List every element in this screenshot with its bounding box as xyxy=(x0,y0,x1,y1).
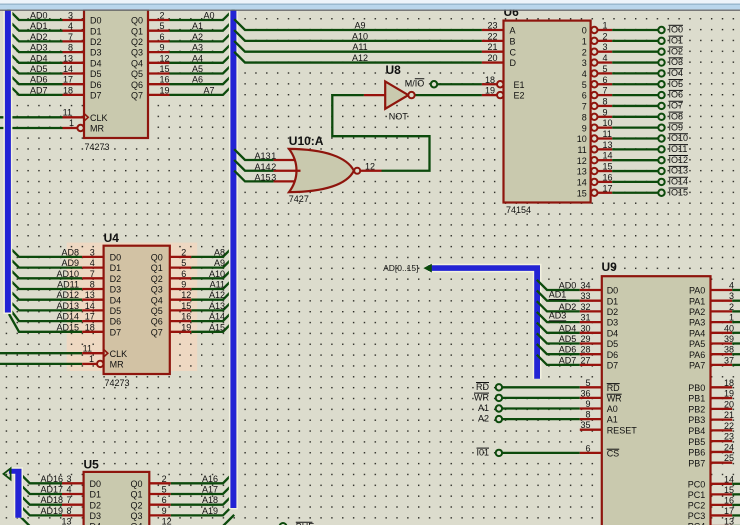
wire IO6 xyxy=(612,94,658,96)
svg-text:12: 12 xyxy=(365,161,375,171)
terminal IO5 xyxy=(658,81,664,87)
pin U9.34 (D0) stub xyxy=(580,289,602,291)
wire AD10 to U4.D2 xyxy=(8,267,83,278)
wire AD1 from AD bus to U9.D1 xyxy=(537,291,580,301)
pin U5.4 (D1) stub xyxy=(62,493,84,495)
svg-text:13: 13 xyxy=(603,140,613,150)
svg-text:AD3: AD3 xyxy=(549,311,567,321)
svg-text:1: 1 xyxy=(603,21,608,31)
pin U3.8 (D3) stub xyxy=(63,51,85,53)
svg-text:4: 4 xyxy=(90,258,95,268)
wire A19 from U5.Q3 to address bus xyxy=(171,504,234,515)
svg-text:14: 14 xyxy=(603,151,613,161)
terminal IO1 xyxy=(658,38,664,44)
wire AD0 from AD bus to U9.D0 xyxy=(537,280,580,290)
wire A13 from U4.Q5 to address bus xyxy=(191,299,234,310)
clock wedge U4.CLK xyxy=(104,349,108,357)
pin U6.13 (output 11) stub xyxy=(598,148,613,150)
pin U4.2 (Q0) stub xyxy=(170,256,192,258)
bus halo left xyxy=(3,10,12,314)
svg-text:WR: WR xyxy=(474,392,489,402)
svg-text:1: 1 xyxy=(69,118,74,128)
pin U6.15 (output 13) stub xyxy=(598,170,613,172)
wire PA7 xyxy=(732,364,740,366)
wire IO7 xyxy=(612,105,658,107)
svg-text:PA0: PA0 xyxy=(689,286,705,296)
svg-text:D4: D4 xyxy=(90,58,102,68)
svg-text:3: 3 xyxy=(582,58,587,68)
inversion bubble U6.E1 xyxy=(497,81,503,87)
svg-text:AD8: AD8 xyxy=(61,247,79,257)
pin U3.15 (Q5) stub xyxy=(148,72,170,74)
pin U9.9 (A0) stub xyxy=(580,407,602,409)
chip U5 74273 body (clipped at bottom) xyxy=(84,472,150,530)
pin U5.8 (D3) stub xyxy=(62,514,84,516)
svg-text:AD7: AD7 xyxy=(30,85,48,95)
wire PA3 xyxy=(732,321,740,323)
terminal IO0 xyxy=(658,27,664,33)
chip U6 74154 body xyxy=(504,21,591,203)
svg-text:A5: A5 xyxy=(192,64,203,74)
pin U6.19 (E2) stub xyxy=(482,94,497,96)
svg-text:A7: A7 xyxy=(203,85,214,95)
wire PC4 xyxy=(732,525,740,527)
svg-text:A19: A19 xyxy=(202,506,218,516)
pin U9.28 (D6) stub xyxy=(580,353,602,355)
terminal IO9 xyxy=(658,124,664,130)
pin U9.2 (PA2) stub xyxy=(711,310,733,312)
svg-text:5: 5 xyxy=(585,378,590,388)
wire AD3 to U3.D3 xyxy=(8,41,63,52)
svg-text:9: 9 xyxy=(603,107,608,117)
pin U3.16 (Q6) stub xyxy=(148,83,170,85)
svg-text:4: 4 xyxy=(729,281,734,291)
svg-text:4: 4 xyxy=(66,485,71,495)
svg-text:AD7: AD7 xyxy=(559,355,577,365)
chip U3 74273 body xyxy=(84,9,148,138)
svg-text:A11: A11 xyxy=(352,42,367,52)
svg-text:AD4: AD4 xyxy=(559,323,577,333)
chip U9 8255 body (clipped at bottom) xyxy=(602,276,711,530)
svg-text:13: 13 xyxy=(724,517,734,526)
pin U5.3 (D0) stub xyxy=(62,482,84,484)
svg-text:15: 15 xyxy=(160,64,170,74)
pin U4.1 (MR) stub xyxy=(82,363,97,365)
wire IO9 xyxy=(612,127,658,129)
svg-text:D3: D3 xyxy=(110,285,122,295)
pin U4.3 (D0) stub xyxy=(82,256,103,258)
pin U6.17 (output 15) stub xyxy=(598,192,613,194)
pin U9.22 (PB4) stub xyxy=(711,429,733,431)
terminal IO12 xyxy=(658,157,664,163)
wire PC1 xyxy=(732,493,740,495)
svg-text:14: 14 xyxy=(63,64,73,74)
svg-text:30: 30 xyxy=(580,323,590,333)
pin U3.2 (Q0) stub xyxy=(148,19,170,21)
wire A5 from U3.Q5 to address bus xyxy=(170,62,235,73)
svg-text:A11: A11 xyxy=(210,280,225,290)
gate U8 NOT body xyxy=(385,81,408,108)
wire A6 from U3.Q6 to address bus xyxy=(170,73,235,84)
wire AD2 to U3.D2 xyxy=(8,30,63,41)
wire A20 from U5.Q4 to address bus xyxy=(171,515,234,526)
wire IO12 xyxy=(612,159,658,161)
svg-text:13: 13 xyxy=(61,517,71,525)
svg-text:D0: D0 xyxy=(110,253,122,263)
svg-text:IO4: IO4 xyxy=(669,68,684,78)
svg-text:9: 9 xyxy=(160,43,165,53)
svg-text:33: 33 xyxy=(580,291,590,301)
pin U3.17 (D6) stub xyxy=(63,83,85,85)
pin U4.12 (Q4) stub xyxy=(170,299,192,301)
svg-text:17: 17 xyxy=(724,506,734,516)
pin U3.7 (D2) stub xyxy=(63,40,85,42)
svg-text:AD11: AD11 xyxy=(57,280,79,290)
pin U9.21 (PB3) stub xyxy=(711,418,733,420)
pin U6.21 (C) stub xyxy=(482,51,504,53)
svg-text:13: 13 xyxy=(63,53,73,63)
svg-text:74154: 74154 xyxy=(506,205,531,215)
wire AD1 to U3.D1 xyxy=(8,19,63,30)
wire PA5 xyxy=(732,342,740,344)
selection highlight around U4 xyxy=(67,243,198,371)
svg-text:38: 38 xyxy=(724,345,734,355)
svg-text:D0: D0 xyxy=(90,16,102,26)
AD bus arrow head xyxy=(423,264,431,273)
pin U10.3 stub xyxy=(274,180,296,182)
svg-text:PA1: PA1 xyxy=(689,296,705,306)
pin U4.5 (Q1) stub xyxy=(170,266,192,268)
svg-text:D1: D1 xyxy=(607,296,619,306)
pin U3.12 (Q4) stub xyxy=(148,62,170,64)
wire AD5 to U3.D5 xyxy=(8,62,63,73)
svg-text:E2: E2 xyxy=(514,91,525,101)
wire IO13 xyxy=(612,170,658,172)
pin U5.5 (Q1) stub xyxy=(149,493,171,495)
wire AD8 to U4.D0 xyxy=(8,246,83,257)
wire AD13 to U4.D5 xyxy=(8,299,83,310)
svg-text:IO11: IO11 xyxy=(669,144,688,154)
wire to U3.CLK xyxy=(0,116,63,118)
svg-text:IO10: IO10 xyxy=(669,133,689,143)
svg-text:Q7: Q7 xyxy=(151,327,163,337)
pin U3.19 (Q7) stub xyxy=(148,94,170,96)
svg-text:0: 0 xyxy=(582,26,587,36)
svg-text:D0: D0 xyxy=(607,286,619,296)
svg-text:A2: A2 xyxy=(478,414,489,424)
terminal IO2 xyxy=(658,49,664,55)
wire A3 from U3.Q3 to address bus xyxy=(170,41,235,52)
wire A17 from U5.Q1 to address bus xyxy=(171,483,234,494)
svg-text:74273: 74273 xyxy=(85,142,110,152)
wire A10 from U4.Q2 to address bus xyxy=(191,267,234,278)
svg-text:IO8: IO8 xyxy=(669,111,684,121)
svg-text:14: 14 xyxy=(724,474,734,484)
wire to U3.MR xyxy=(0,127,63,129)
pin U3.13 (D4) stub xyxy=(63,62,85,64)
wire A15 from address bus to U10 input 3 xyxy=(234,171,273,182)
svg-text:74273: 74273 xyxy=(105,378,130,388)
pin U9.35 (RESET) stub xyxy=(580,429,602,431)
wire IO2 xyxy=(612,51,658,53)
svg-text:18: 18 xyxy=(63,85,73,95)
svg-text:4: 4 xyxy=(603,53,608,63)
wire AD16 to U5.D0 xyxy=(19,472,63,483)
svg-text:2: 2 xyxy=(729,302,734,312)
svg-text:35: 35 xyxy=(580,420,590,430)
pin U4.18 (D7) stub xyxy=(82,331,103,333)
wire AD9 to U4.D1 xyxy=(8,256,83,267)
wire M/IO to U6.E1 xyxy=(437,83,482,85)
wire A14 from address bus to U10 input 2 xyxy=(234,160,273,171)
wire AD12 to U4.D4 xyxy=(8,288,83,299)
pin U9.5 (RD) stub xyxy=(580,386,602,388)
svg-text:A15: A15 xyxy=(209,322,225,332)
pin U9.1 (PA3) stub xyxy=(711,321,733,323)
wire IO4 xyxy=(612,72,658,74)
pin U4.13 (D4) stub xyxy=(82,299,103,301)
svg-text:Q3: Q3 xyxy=(131,48,143,58)
svg-text:1: 1 xyxy=(271,151,276,161)
bus 3 halo (bottom-left) xyxy=(9,467,23,518)
svg-text:PC2: PC2 xyxy=(688,501,706,511)
terminal IO11 xyxy=(658,146,664,152)
svg-text:8: 8 xyxy=(585,410,590,420)
window top bar xyxy=(0,0,740,4)
svg-text:19: 19 xyxy=(181,322,191,332)
svg-text:7: 7 xyxy=(603,86,608,96)
svg-text:PB1: PB1 xyxy=(688,394,705,404)
wire AD20 to U5.D4 xyxy=(19,515,63,526)
svg-text:D7: D7 xyxy=(90,91,102,101)
svg-text:AD6: AD6 xyxy=(30,75,48,85)
pin U5.12 (Q4) stub xyxy=(149,525,171,527)
gate U10:A 7427 NOR body xyxy=(289,149,354,192)
svg-text:34: 34 xyxy=(580,281,590,291)
svg-text:PB2: PB2 xyxy=(688,404,705,414)
svg-text:6: 6 xyxy=(582,91,587,101)
svg-text:19: 19 xyxy=(724,389,734,399)
svg-text:3: 3 xyxy=(66,474,71,484)
pin U9.27 (D7) stub xyxy=(580,364,602,366)
terminal IO14 xyxy=(658,179,664,185)
svg-text:20: 20 xyxy=(724,399,734,409)
svg-text:Q4: Q4 xyxy=(131,58,143,68)
svg-text:IO14: IO14 xyxy=(669,177,689,187)
svg-text:AD3: AD3 xyxy=(30,43,48,53)
pin U9.29 (D5) stub xyxy=(580,342,602,344)
wire A10 from address bus to U6.B xyxy=(234,30,482,41)
wire PC2 xyxy=(732,504,740,506)
wire PA2 xyxy=(732,310,740,312)
svg-text:11: 11 xyxy=(603,129,612,139)
svg-text:AD5: AD5 xyxy=(30,64,48,74)
svg-text:PA6: PA6 xyxy=(689,350,705,360)
wire I01 to U9.CS xyxy=(502,452,580,454)
bus 3 arrow head xyxy=(4,468,11,479)
svg-text:D3: D3 xyxy=(607,318,619,328)
pin U9.23 (PB5) stub xyxy=(711,440,733,442)
svg-text:11: 11 xyxy=(63,108,72,118)
svg-text:Q0: Q0 xyxy=(130,479,142,489)
svg-text:I01: I01 xyxy=(476,447,489,457)
svg-text:AD5: AD5 xyxy=(559,334,577,344)
svg-text:17: 17 xyxy=(85,312,95,322)
svg-text:U9: U9 xyxy=(602,260,618,274)
terminal RD xyxy=(496,384,502,390)
svg-text:D6: D6 xyxy=(110,317,122,327)
svg-text:15: 15 xyxy=(577,188,587,198)
pin U10.2 stub xyxy=(274,170,301,172)
wire U8 output to U6.E2 xyxy=(415,94,482,96)
svg-text:IO0: IO0 xyxy=(669,25,684,35)
wire A13 from address bus to U10 input 1 xyxy=(234,149,273,160)
svg-text:PB0: PB0 xyxy=(688,383,705,393)
svg-text:12: 12 xyxy=(160,53,170,63)
wire AD7 from AD bus to U9.D7 xyxy=(537,355,580,365)
svg-text:PC0: PC0 xyxy=(688,479,706,489)
wire AD17 to U5.D1 xyxy=(19,483,63,494)
svg-text:AD17: AD17 xyxy=(40,485,63,495)
svg-text:5: 5 xyxy=(603,64,608,74)
wire A11 from address bus to U6.C xyxy=(234,41,482,52)
wire IO5 xyxy=(612,83,658,85)
pin U6.5 (output 4) stub xyxy=(598,72,613,74)
pin U4.9 (Q3) stub xyxy=(170,288,192,290)
svg-text:PC1: PC1 xyxy=(688,490,706,500)
svg-text:RD: RD xyxy=(607,383,620,393)
svg-text:21: 21 xyxy=(724,410,734,420)
svg-text:A: A xyxy=(510,26,516,36)
wire IO3 xyxy=(612,61,658,63)
svg-text:Q0: Q0 xyxy=(131,16,143,26)
svg-text:PB3: PB3 xyxy=(688,415,705,425)
terminal IO7 xyxy=(658,103,664,109)
svg-text:6: 6 xyxy=(603,75,608,85)
pin U9.36 (WR) stub xyxy=(580,397,602,399)
pin U10.12 output stub xyxy=(360,170,381,172)
svg-text:D4: D4 xyxy=(110,295,122,305)
pin U6.9 (output 8) stub xyxy=(598,116,613,118)
svg-text:A0: A0 xyxy=(203,11,214,21)
svg-text:Q1: Q1 xyxy=(131,26,143,36)
inversion bubble U6 output 2 xyxy=(591,49,597,55)
svg-text:D7: D7 xyxy=(110,327,122,337)
wire AD4 to U3.D4 xyxy=(8,52,63,63)
svg-text:2: 2 xyxy=(271,162,276,172)
pin U3.6 (Q2) stub xyxy=(148,40,170,42)
wire AD14 to U4.D6 xyxy=(8,307,82,322)
svg-text:A14: A14 xyxy=(209,312,225,322)
pin U3.5 (Q1) stub xyxy=(148,30,170,32)
svg-text:D: D xyxy=(510,58,517,68)
pin U9.25 (PB7) stub xyxy=(711,462,733,464)
svg-text:22: 22 xyxy=(724,421,734,431)
terminal A2 xyxy=(496,416,502,422)
svg-text:20: 20 xyxy=(487,53,497,63)
wire PA6 xyxy=(732,353,740,355)
svg-text:8: 8 xyxy=(603,96,608,106)
svg-text:6: 6 xyxy=(181,269,186,279)
inversion bubble U6 output 8 xyxy=(591,114,597,120)
svg-text:37: 37 xyxy=(724,355,734,365)
pin U9.18 (PB0) stub xyxy=(711,386,733,388)
inversion bubble U6.E2 xyxy=(497,92,503,98)
wire AD4 from AD bus to U9.D4 xyxy=(537,323,580,333)
pin U9.30 (D4) stub xyxy=(580,332,602,334)
svg-text:2: 2 xyxy=(603,31,608,41)
inversion bubble U6 output 4 xyxy=(591,70,597,76)
svg-text:10: 10 xyxy=(577,134,587,144)
svg-text:4: 4 xyxy=(68,21,73,31)
wire A8 from U4.Q0 to address bus xyxy=(191,246,234,257)
chip U4 74273 body xyxy=(104,246,170,374)
pin U9.40 (PA4) stub xyxy=(711,332,733,334)
pin U3.1 (MR) stub xyxy=(63,127,78,129)
svg-text:Q6: Q6 xyxy=(151,317,163,327)
pin U9.14 (PC0) stub xyxy=(711,483,733,485)
svg-text:A16: A16 xyxy=(202,474,218,484)
wire AD0 to U3.D0 xyxy=(8,9,63,20)
svg-text:E1: E1 xyxy=(514,80,525,90)
svg-text:7: 7 xyxy=(66,495,71,505)
svg-text:Q1: Q1 xyxy=(151,263,163,273)
svg-text:D1: D1 xyxy=(110,263,122,273)
wire A18 from U5.Q2 to address bus xyxy=(171,493,234,504)
wire PA1 xyxy=(732,300,740,302)
svg-text:D3: D3 xyxy=(90,511,102,521)
svg-text:A10: A10 xyxy=(209,269,225,279)
svg-text:25: 25 xyxy=(724,453,734,463)
svg-text:14: 14 xyxy=(577,178,587,188)
svg-text:6: 6 xyxy=(162,495,167,505)
wire PA0 xyxy=(732,289,740,291)
wire A12 from address bus to U6.D xyxy=(234,52,482,63)
bus halo mid xyxy=(229,10,238,509)
svg-text:5: 5 xyxy=(160,21,165,31)
svg-text:PA3: PA3 xyxy=(689,318,705,328)
pin U9.15 (PC1) stub xyxy=(711,493,733,495)
svg-text:D1: D1 xyxy=(90,490,102,500)
svg-text:AD0: AD0 xyxy=(30,11,48,21)
svg-text:IO6: IO6 xyxy=(669,90,684,100)
svg-text:Q2: Q2 xyxy=(151,274,163,284)
pin U6.11 (output 10) stub xyxy=(598,137,613,139)
pin U6.7 (output 6) stub xyxy=(598,94,613,96)
svg-text:3: 3 xyxy=(603,42,608,52)
bus 3 (bottom-left L-shape) xyxy=(9,469,22,518)
svg-text:A1: A1 xyxy=(607,415,618,425)
svg-text:29: 29 xyxy=(580,334,590,344)
svg-text:3: 3 xyxy=(90,247,95,257)
svg-text:Q0: Q0 xyxy=(151,253,163,263)
svg-text:7: 7 xyxy=(68,32,73,42)
svg-text:PA5: PA5 xyxy=(689,339,705,349)
svg-text:8: 8 xyxy=(66,506,71,516)
terminal IO3 xyxy=(658,59,664,65)
svg-text:22: 22 xyxy=(487,31,497,41)
inversion bubble U6 output 0 xyxy=(591,27,597,33)
svg-text:2: 2 xyxy=(162,474,167,484)
pin U9.32 (D2) stub xyxy=(580,310,602,312)
svg-text:CLK: CLK xyxy=(90,113,108,123)
pin U3.4 (D1) stub xyxy=(63,30,85,32)
wire A9 from U4.Q1 to address bus xyxy=(191,256,234,267)
svg-text:7427: 7427 xyxy=(289,194,309,204)
svg-text:IO9: IO9 xyxy=(669,122,684,132)
wire A16 from U5.Q0 to address bus xyxy=(171,472,234,483)
svg-text:AD14: AD14 xyxy=(56,312,79,322)
